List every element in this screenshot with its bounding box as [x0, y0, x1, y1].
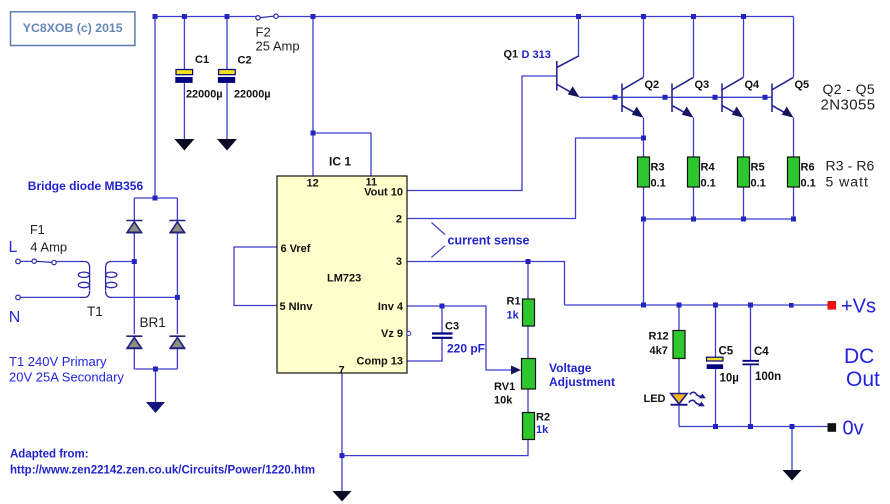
- wire C2 top lead: [226, 17, 228, 70]
- junction IC top link: [311, 131, 316, 136]
- svg-text:Adjustment: Adjustment: [549, 375, 615, 389]
- wire R5 bottom lead: [743, 187, 745, 219]
- svg-text:C2: C2: [238, 55, 252, 67]
- resistor R4: [688, 157, 700, 187]
- potentiometer RV1 wiper arrow: [511, 366, 521, 375]
- junction pin 7 R2 node: [340, 453, 345, 458]
- svg-text:Comp 13: Comp 13: [357, 356, 403, 368]
- ground below C1: [174, 139, 194, 151]
- svg-text:L: L: [9, 239, 18, 256]
- svg-text:R1: R1: [507, 296, 521, 308]
- wire 0v ground drop: [791, 427, 793, 471]
- svg-text:5 NInv: 5 NInv: [280, 301, 314, 313]
- svg-text:R12: R12: [649, 331, 669, 343]
- potentiometer RV1: [522, 359, 536, 390]
- wire secondary bottom to bridge: [111, 296, 177, 298]
- svg-text:Q2: Q2: [645, 79, 660, 91]
- svg-text:C5: C5: [719, 346, 734, 358]
- diode BR1 lower-left: [126, 336, 142, 348]
- wire bridge right vertical upper: [176, 198, 178, 220]
- svg-text:0.1: 0.1: [701, 178, 716, 190]
- wire secondary top to bridge: [111, 261, 134, 263]
- svg-text:IC 1: IC 1: [329, 155, 351, 169]
- junction R12 top: [677, 303, 682, 308]
- svg-text:Voltage: Voltage: [549, 361, 592, 375]
- svg-text:12: 12: [307, 178, 319, 190]
- current sense pointer marks: [431, 222, 445, 257]
- wire C1 bottom lead: [183, 83, 185, 139]
- junction +Vs rail node: [789, 303, 794, 308]
- junction Q3 collector: [691, 14, 696, 19]
- junction bridge AC right: [175, 295, 180, 300]
- junction pin 3 R1 tap: [526, 259, 531, 264]
- wire top supply rail left segment: [155, 16, 256, 18]
- svg-text:2N3055: 2N3055: [821, 97, 876, 114]
- fuse F2: [256, 14, 278, 20]
- svg-text:BR1: BR1: [140, 315, 166, 330]
- diode BR1 upper-left: [126, 221, 142, 233]
- svg-text:N: N: [9, 309, 21, 326]
- wire bridge left vertical lower: [133, 349, 135, 369]
- junction C4 bottom: [748, 424, 753, 429]
- node N terminal: [16, 295, 21, 300]
- svg-text:F1: F1: [30, 223, 45, 237]
- wire bridge right vertical middle: [176, 233, 178, 335]
- svg-text:22000µ: 22000µ: [234, 89, 271, 101]
- svg-text:1k: 1k: [536, 424, 549, 436]
- wire Q2 emitter to R3: [643, 118, 645, 157]
- wire bridge left vertical middle: [133, 233, 135, 335]
- junction bridge top: [153, 196, 158, 201]
- junction top rail left end: [153, 14, 158, 19]
- pin Vz 9 open circle: [407, 332, 411, 336]
- junction C2 top: [225, 14, 230, 19]
- svg-text:4k7: 4k7: [650, 345, 668, 357]
- wire C1 top lead: [183, 17, 185, 70]
- capacitor C3: [432, 334, 453, 338]
- svg-text:25 Amp: 25 Amp: [256, 38, 300, 53]
- junction Q2 base: [613, 95, 618, 100]
- svg-text:3: 3: [396, 256, 402, 268]
- transistor Q4: [722, 77, 744, 117]
- wire C2 bottom lead: [226, 83, 228, 139]
- wire 0v rail: [679, 426, 828, 428]
- LED light emission arrows: [688, 391, 706, 407]
- svg-text:Q2 - Q5: Q2 - Q5: [823, 81, 876, 97]
- junction pin 12 riser: [311, 14, 316, 19]
- svg-text:C4: C4: [754, 346, 769, 358]
- junction R4 bottom: [691, 217, 696, 222]
- junction Q3 base: [663, 95, 668, 100]
- junction Q4 collector: [741, 14, 746, 19]
- wire pin 3 to +Vs rail: [407, 262, 565, 306]
- wire C4 bottom lead: [750, 365, 752, 427]
- node +Vs terminal: [828, 301, 837, 310]
- junction Q1 collector: [576, 14, 581, 19]
- junction Q2 emitter current sense: [641, 136, 646, 141]
- diode BR1 lower-right: [169, 336, 185, 348]
- wire drop from emitter rail to +Vs rail: [643, 219, 645, 305]
- wire left vertical from top rail to bridge: [154, 17, 156, 199]
- resistor R12: [673, 331, 685, 359]
- wire Q3 emitter to R4: [693, 118, 695, 157]
- ground below C2: [217, 139, 237, 151]
- svg-text:R4: R4: [701, 162, 716, 174]
- svg-text:Q1: Q1: [504, 49, 519, 61]
- transistor Q3: [672, 77, 694, 117]
- svg-text:20V 25A Secondary: 20V 25A Secondary: [9, 370, 124, 385]
- svg-text:100n: 100n: [755, 371, 781, 383]
- ground below 0v rail: [783, 470, 802, 481]
- svg-text:+Vs: +Vs: [841, 296, 876, 318]
- resistor R6: [788, 157, 800, 187]
- wire R2 bottom to pin 7 node: [342, 440, 528, 456]
- wire RV1 to R2: [527, 389, 529, 413]
- transformer T1 primary winding: [78, 262, 89, 298]
- svg-text:C1: C1: [195, 54, 209, 66]
- svg-text:R2: R2: [536, 412, 550, 424]
- junction C1 top: [182, 14, 187, 19]
- junction Q5 base: [763, 95, 768, 100]
- svg-text:7: 7: [339, 365, 345, 377]
- svg-text:0.1: 0.1: [751, 178, 766, 190]
- svg-text:Q5: Q5: [795, 79, 810, 91]
- svg-text:5 watt: 5 watt: [826, 173, 869, 189]
- svg-text:YC8XOB (c) 2015: YC8XOB (c) 2015: [23, 21, 123, 35]
- wire R4 bottom lead: [693, 187, 695, 219]
- wire R12 to LED: [678, 359, 680, 394]
- junction Q2 collector: [641, 14, 646, 19]
- svg-text:current sense: current sense: [448, 234, 530, 248]
- svg-text:1k: 1k: [507, 310, 520, 322]
- svg-text:Vz 9: Vz 9: [381, 328, 403, 340]
- svg-text:0.1: 0.1: [651, 178, 666, 190]
- junction R6 bottom: [791, 217, 796, 222]
- svg-text:T1 240V Primary: T1 240V Primary: [9, 354, 107, 369]
- wire R12 top lead: [678, 305, 680, 331]
- svg-text:R6: R6: [801, 162, 815, 174]
- resistor R5: [738, 157, 750, 187]
- capacitor C1: [175, 70, 192, 83]
- svg-text:LM723: LM723: [327, 273, 361, 285]
- svg-text:2: 2: [396, 213, 402, 225]
- title box: [11, 12, 135, 46]
- svg-text:F2: F2: [256, 24, 271, 39]
- svg-text:Q4: Q4: [745, 79, 761, 91]
- svg-text:R3 - R6: R3 - R6: [826, 158, 875, 174]
- svg-text:0v: 0v: [843, 418, 864, 440]
- wire Vref-NInv feedback loop: [234, 247, 277, 306]
- junction Inv4 C3 tap: [440, 304, 445, 309]
- wire Q1 collector to rail: [578, 17, 580, 56]
- svg-text:10k: 10k: [494, 395, 513, 407]
- junction +Vs rail left: [641, 303, 646, 308]
- node 0v terminal: [828, 423, 837, 432]
- wire bridge bottom bar: [134, 368, 177, 370]
- wire bridge right vertical lower: [176, 349, 178, 369]
- svg-text:DC: DC: [844, 345, 874, 368]
- svg-text:D 313: D 313: [522, 49, 551, 61]
- svg-text:22000µ: 22000µ: [186, 89, 223, 101]
- resistor R3: [638, 157, 650, 187]
- wire bridge ground drop: [155, 369, 157, 402]
- wire emitter resistor bottom rail: [644, 218, 794, 220]
- wire IC pin 12 from top rail: [312, 17, 314, 177]
- wire Q5 collector vertical: [793, 17, 795, 78]
- junction C5 top: [713, 303, 718, 308]
- wire C5 bottom lead: [715, 369, 717, 427]
- wire top supply rail right segment: [278, 16, 793, 18]
- wire Vout 10 to Q1 base: [407, 76, 556, 191]
- svg-text:http://www.zen22142.zen.co.uk/: http://www.zen22142.zen.co.uk/Circuits/P…: [10, 464, 315, 476]
- junction bridge AC left: [132, 259, 137, 264]
- wire Q2 collector vertical: [643, 17, 645, 78]
- svg-text:4 Amp: 4 Amp: [30, 240, 67, 255]
- wire pin3 node through R1 RV1 R2 chain: [527, 262, 529, 300]
- capacitor C4: [743, 361, 760, 365]
- wire IC pin 11 link: [313, 133, 371, 176]
- svg-text:6 Vref: 6 Vref: [281, 243, 311, 255]
- LED D1: [671, 394, 688, 405]
- wire Q4 collector vertical: [743, 17, 745, 78]
- ground below bridge BR1: [146, 402, 165, 413]
- junction R5 bottom: [741, 217, 746, 222]
- junction nodes: [132, 14, 796, 458]
- svg-text:R3: R3: [651, 162, 665, 174]
- svg-text:C3: C3: [445, 321, 459, 333]
- ground below pin 7: [333, 491, 352, 502]
- svg-text:10µ: 10µ: [720, 373, 739, 385]
- wire Q3 collector vertical: [693, 17, 695, 78]
- transistor Q5: [772, 77, 794, 117]
- transistor Q1: [557, 56, 580, 98]
- junction Q4 base: [713, 95, 718, 100]
- wire N input to primary bottom: [20, 296, 80, 298]
- resistor R2: [523, 413, 535, 440]
- wire C4 top lead: [750, 305, 752, 360]
- svg-text:R5: R5: [751, 162, 765, 174]
- diode BR1 upper-right: [169, 221, 185, 233]
- wire R3 bottom lead: [643, 187, 645, 219]
- wire Inv 4 to wiper: [407, 306, 512, 370]
- junction C4 top: [748, 303, 753, 308]
- svg-text:Q3: Q3: [695, 79, 710, 91]
- transformer T1 secondary winding: [106, 262, 117, 298]
- op-amp U1 regulator IC1 LM723 body: [277, 176, 407, 373]
- svg-text:Adapted from:: Adapted from:: [10, 449, 89, 461]
- wire base rail Q1 emitter to Q5: [580, 96, 773, 98]
- wire C3 top lead: [441, 306, 443, 333]
- svg-text:T1: T1: [87, 304, 103, 319]
- svg-text:Vout 10: Vout 10: [364, 187, 403, 199]
- junction R3 bottom: [641, 217, 646, 222]
- wire LED to 0v rail: [678, 405, 680, 427]
- wire +Vs rail: [565, 304, 828, 306]
- wire F1 to primary: [56, 261, 80, 263]
- junction bridge bottom: [153, 367, 158, 372]
- fuse F1: [32, 259, 56, 265]
- svg-text:Inv 4: Inv 4: [378, 301, 404, 313]
- svg-text:Bridge diode MB356: Bridge diode MB356: [28, 179, 144, 193]
- wire L input to fuse F1: [20, 260, 32, 262]
- wire Q4 emitter to R5: [743, 118, 745, 157]
- svg-text:Out: Out: [846, 368, 880, 391]
- wire bridge left vertical upper: [133, 198, 135, 220]
- wire pin 7 down: [341, 373, 343, 491]
- resistor R1: [523, 299, 535, 326]
- junction 0v ground tap: [790, 424, 795, 429]
- wire pin 2 current sense to Q2 emitter: [407, 138, 644, 219]
- svg-text:0.1: 0.1: [801, 178, 816, 190]
- svg-text:220 pF: 220 pF: [447, 342, 485, 356]
- capacitor C5: [707, 357, 724, 369]
- wire Q5 emitter to R6: [793, 118, 795, 157]
- svg-text:RV1: RV1: [494, 381, 515, 393]
- wire C3 bottom lead to Comp 13: [407, 339, 442, 362]
- junction C5 bottom: [713, 424, 718, 429]
- wire R6 bottom lead: [793, 187, 795, 219]
- wire bridge top bar: [134, 197, 177, 199]
- wire C5 top lead: [715, 305, 717, 357]
- svg-text:LED: LED: [644, 393, 666, 405]
- node L terminal: [16, 259, 21, 264]
- wire R1 to RV1: [527, 326, 529, 359]
- transistor Q2: [622, 77, 644, 117]
- capacitor C2: [218, 70, 235, 83]
